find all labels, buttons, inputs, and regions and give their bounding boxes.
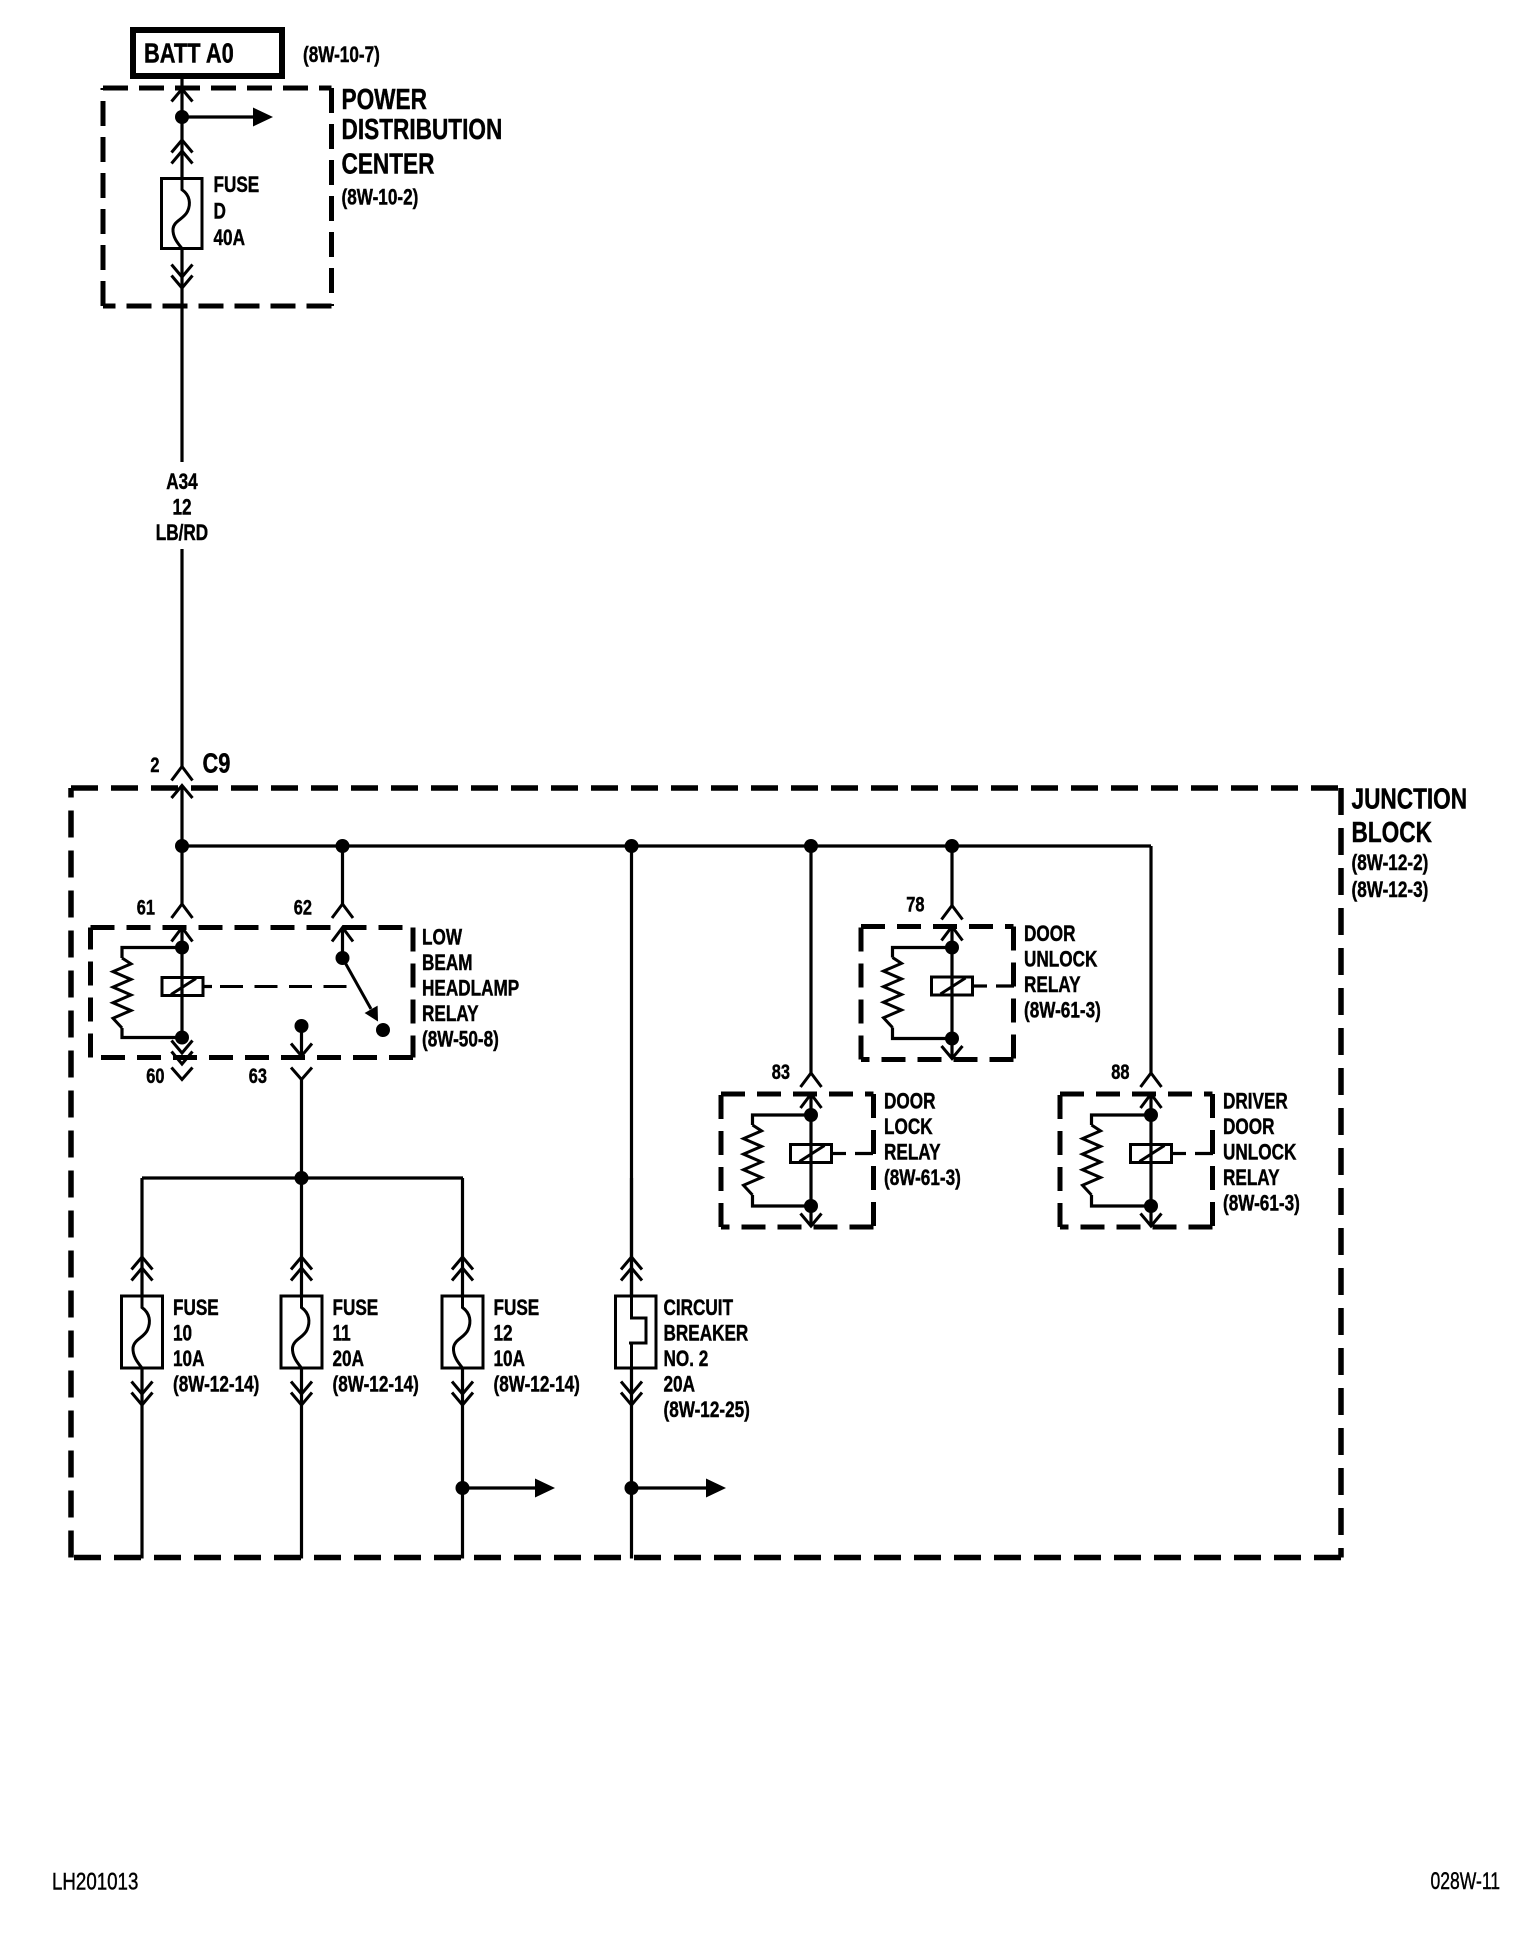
circuit breaker no. 2 output node [625,1481,639,1495]
door lock relay coil actuation dashed stub [832,1152,874,1155]
door unlock relay wire through coil [950,948,953,1039]
terminal 83 label [772,1060,790,1083]
terminal 62 female fork [332,904,353,918]
relay switch blade arrow [343,958,379,1022]
fuse 10 branch wire lower [140,1368,143,1559]
svg-text:61: 61 [137,896,155,919]
relay coil box [162,978,203,996]
label DOOR UNLOCK RELAY (8W-61-3) [1024,922,1101,1023]
fuse 12 symbol [442,1296,483,1368]
circuit label A34 12 LB/RD [156,470,208,546]
wire 83 into relay [809,1094,812,1115]
relay coil top node [175,941,189,955]
svg-text:RELAY: RELAY [422,1002,479,1027]
terminal 62 male chevron [332,928,353,942]
svg-text:FUSE: FUSE [173,1296,219,1321]
svg-text:LH201013: LH201013 [52,1868,138,1895]
fuse feeder node [295,1171,309,1185]
feed arrow to other circuits [182,108,273,127]
door unlock relay coil top node [945,941,959,955]
fuse feeder wire [142,1176,463,1179]
fuse 12 inline connector chevrons [452,1257,473,1281]
door lock relay output wire [809,1206,812,1226]
driver door unlock relay output wire [1149,1206,1152,1226]
terminal 60 label [146,1064,164,1087]
door lock relay coil top node [804,1108,818,1122]
circuit breaker no. 2 inline connector chevrons [621,1257,642,1281]
terminal 61 male chevron [172,928,193,942]
footer page code 028W-11 [1431,1868,1500,1894]
circuit breaker no. 2 branch wire upper [630,1178,633,1296]
door lock relay dashed box [721,1094,874,1227]
svg-text:(8W-12-3): (8W-12-3) [1352,878,1429,903]
svg-text:10A: 10A [173,1347,204,1372]
svg-text:FUSE: FUSE [214,173,260,198]
fuse 10 inline connector chevrons [132,1257,153,1281]
fuse 10 outlet chevrons [132,1382,153,1406]
wire junction to fuse D [180,117,183,179]
svg-text:10A: 10A [494,1347,525,1372]
label FUSE 12 10A (8W-12-14) [494,1296,580,1397]
wire 78 into relay [950,927,953,948]
door lock relay wire through coil [809,1115,812,1206]
pin 2 label [150,753,159,776]
driver door unlock relay coil top node [1144,1108,1158,1122]
driver door unlock relay coil actuation dashed stub [1172,1152,1214,1155]
svg-text:D: D [214,200,226,225]
driver door unlock relay coil box [1131,1145,1172,1163]
terminal 61 label [137,896,155,919]
svg-text:60: 60 [146,1064,164,1087]
fuse 11 outlet chevrons [291,1382,312,1406]
label FUSE 10 10A (8W-12-14) [173,1296,259,1397]
wire C9 to bus [180,786,183,847]
svg-text:83: 83 [772,1060,790,1083]
svg-text:C9: C9 [203,748,231,779]
connector C9 female fork [172,767,193,781]
bus node at C9 drop [175,839,189,853]
door unlock relay coil box [932,977,973,995]
svg-text:(8W-50-8): (8W-50-8) [422,1028,499,1053]
footer sheet code LH201013 [52,1868,138,1895]
svg-text:POWER: POWER [342,82,428,115]
terminal 63 chevron [291,1044,312,1057]
relay switch contact dot [376,1023,390,1037]
label DRIVER DOOR UNLOCK RELAY (8W-61-3) [1223,1090,1300,1217]
bus wire horizontal [182,844,1151,847]
svg-text:12: 12 [172,496,191,521]
junction block dashed box [71,788,1341,1558]
svg-text:FUSE: FUSE [494,1296,540,1321]
svg-text:LB/RD: LB/RD [156,521,208,546]
label FUSE D 40A [214,173,260,251]
label FUSE 11 20A (8W-12-14) [333,1296,419,1397]
wire 63 to fuse feeder [300,1080,303,1179]
circuit breaker no. 2 outlet chevrons [621,1382,642,1406]
label DOOR LOCK RELAY (8W-61-3) [884,1090,961,1191]
terminal 88 label [1111,1060,1129,1083]
terminal 78 female fork [942,906,963,920]
wire bus to terminal 83 [809,846,812,1074]
connector C9 male chevron [172,786,193,799]
svg-text:(8W-12-14): (8W-12-14) [333,1373,419,1398]
svg-text:63: 63 [249,1064,267,1087]
terminal 62 label [294,896,312,919]
terminal 60 double chevron [172,1041,193,1065]
svg-text:A34: A34 [166,470,197,495]
driver door unlock relay coil bottom node [1144,1199,1158,1213]
svg-text:(8W-61-3): (8W-61-3) [1024,999,1101,1024]
wire bus to circuit breaker [630,846,633,1296]
svg-text:HEADLAMP: HEADLAMP [422,977,519,1002]
svg-text:NO. 2: NO. 2 [664,1347,709,1372]
svg-text:RELAY: RELAY [1223,1166,1280,1191]
fuse 12 branch wire upper [461,1178,464,1296]
connector chevron into PDC [172,89,193,102]
svg-text:62: 62 [294,896,312,919]
fuse 12 outlet chevrons [452,1382,473,1406]
relay switch common dot [295,1019,309,1033]
junction dot in PDC [175,110,189,124]
svg-text:(8W-12-25): (8W-12-25) [664,1398,750,1423]
svg-text:LOCK: LOCK [884,1115,933,1140]
svg-text:88: 88 [1111,1060,1129,1083]
door unlock relay dashed box [861,927,1014,1060]
svg-text:(8W-10-7): (8W-10-7) [303,43,380,68]
wire 88 into relay [1149,1094,1152,1115]
wire BATT A0 to junction [180,76,183,117]
fuse 11 branch wire lower [300,1368,303,1559]
svg-text:40A: 40A [214,226,245,251]
bus node at circuit breaker [625,839,639,853]
wire bus to terminal 62 [341,846,344,904]
label POWER DISTRIBUTION CENTER [342,82,503,210]
wire through relay coil [180,948,183,1038]
terminal 78 label [906,893,924,916]
fuse 12 output node [456,1481,470,1495]
svg-text:DOOR: DOOR [1223,1115,1274,1140]
svg-text:028W-11: 028W-11 [1431,1868,1500,1894]
svg-text:BEAM: BEAM [422,951,473,976]
terminal 61 female fork [172,904,193,918]
svg-text:2: 2 [150,753,159,776]
svg-text:20A: 20A [664,1373,695,1398]
svg-text:UNLOCK: UNLOCK [1223,1141,1297,1166]
relay switch pivot dot [336,951,350,965]
door lock relay output chevron [801,1214,822,1227]
svg-text:(8W-61-3): (8W-61-3) [1223,1192,1300,1217]
inline connector double chevron [172,140,193,164]
svg-text:10: 10 [173,1322,192,1347]
terminal 88 female fork [1141,1073,1162,1087]
bus node at terminal 62 [336,839,350,853]
label CIRCUIT BREAKER NO. 2 20A (8W-12-25) [664,1296,750,1423]
door unlock relay output wire [950,1039,953,1059]
door unlock relay coil actuation dashed stub [973,984,1015,987]
svg-text:(8W-61-3): (8W-61-3) [884,1166,961,1191]
svg-text:11: 11 [333,1322,351,1347]
svg-text:DOOR: DOOR [1024,922,1075,947]
terminal 63 female fork [291,1068,312,1080]
svg-text:DOOR: DOOR [884,1090,935,1115]
svg-text:CENTER: CENTER [342,147,435,180]
svg-text:20A: 20A [333,1347,364,1372]
svg-text:LOW: LOW [422,926,462,951]
fuse 11 inline connector chevrons [291,1257,312,1281]
connector double chevron at PDC exit [172,265,193,289]
relay coil actuation dashed line [203,985,354,988]
label LOW BEAM HEADLAMP RELAY [422,926,519,1053]
svg-text:12: 12 [494,1322,513,1347]
wire 62 to switch [341,928,344,959]
driver door unlock relay coil resistor [1083,1115,1152,1206]
door lock relay coil box [791,1145,832,1163]
svg-text:JUNCTION: JUNCTION [1352,782,1468,815]
wire bus corner to terminal 88 [1149,846,1152,1074]
svg-text:DISTRIBUTION: DISTRIBUTION [342,112,503,145]
svg-text:DRIVER: DRIVER [1223,1090,1288,1115]
label JUNCTION BLOCK [1352,782,1468,903]
svg-text:BATT A0: BATT A0 [144,38,234,69]
svg-text:(8W-12-2): (8W-12-2) [1352,851,1429,876]
circuit breaker no. 2 branch wire lower [630,1368,633,1559]
driver door unlock relay output chevron [1141,1214,1162,1227]
door lock relay coil bottom node [804,1199,818,1213]
svg-text:78: 78 [906,893,924,916]
door unlock relay coil resistor [884,948,953,1039]
terminal 88 male chevron [1141,1094,1162,1108]
fuse 12 branch wire lower [461,1368,464,1559]
fuse 11 branch wire upper [300,1178,303,1296]
connector C9 label [203,748,231,779]
relay coil resistor [113,948,182,1038]
terminal 63 label [249,1064,267,1087]
wire A34 upper segment [180,310,183,462]
bus node at terminal 83 [804,839,818,853]
svg-text:RELAY: RELAY [1024,973,1081,998]
svg-text:BREAKER: BREAKER [664,1322,749,1347]
svg-text:(8W-12-14): (8W-12-14) [173,1373,259,1398]
fuse 12 feed arrow to other circuits [463,1479,556,1498]
svg-text:(8W-12-14): (8W-12-14) [494,1373,580,1398]
terminal 83 male chevron [801,1094,822,1108]
circuit breaker no. 2 symbol [616,1296,657,1368]
svg-text:FUSE: FUSE [333,1296,379,1321]
fuse 10 symbol [122,1296,163,1368]
terminal 78 male chevron [942,927,963,941]
svg-text:(8W-10-2): (8W-10-2) [342,186,419,211]
circuit breaker no. 2 feed arrow to other circuits [632,1479,727,1498]
door unlock relay output chevron [942,1046,963,1059]
door lock relay coil resistor [744,1115,812,1206]
svg-text:BLOCK: BLOCK [1352,815,1433,848]
wire common to terminal 63 [300,1026,303,1056]
wire bus to terminal 61 [180,846,183,904]
terminal 83 female fork [801,1073,822,1087]
wire A34 lower segment [180,549,183,767]
low beam headlamp relay dashed box [91,928,414,1058]
battery feed box BATT A0 [133,30,282,76]
relay coil bottom node [175,1031,189,1045]
door unlock relay coil bottom node [945,1032,959,1046]
bus node at terminal 78 [945,839,959,853]
fuse 10 branch wire upper [140,1178,143,1296]
fuse D 40A symbol [162,179,203,249]
svg-text:CIRCUIT: CIRCUIT [664,1296,734,1321]
wire bus to terminal 78 [950,846,953,907]
svg-text:RELAY: RELAY [884,1141,941,1166]
driver door unlock relay dashed box [1060,1094,1213,1227]
driver door unlock relay wire through coil [1149,1115,1152,1206]
svg-text:UNLOCK: UNLOCK [1024,948,1098,973]
reference label (8W-10-7) [303,43,380,68]
power distribution center dashed box [103,88,332,306]
terminal 60 female fork [172,1068,193,1080]
fuse 11 symbol [281,1296,322,1368]
wire 61 to coil [180,928,183,948]
wire fuse D to PDC exit [180,249,183,311]
